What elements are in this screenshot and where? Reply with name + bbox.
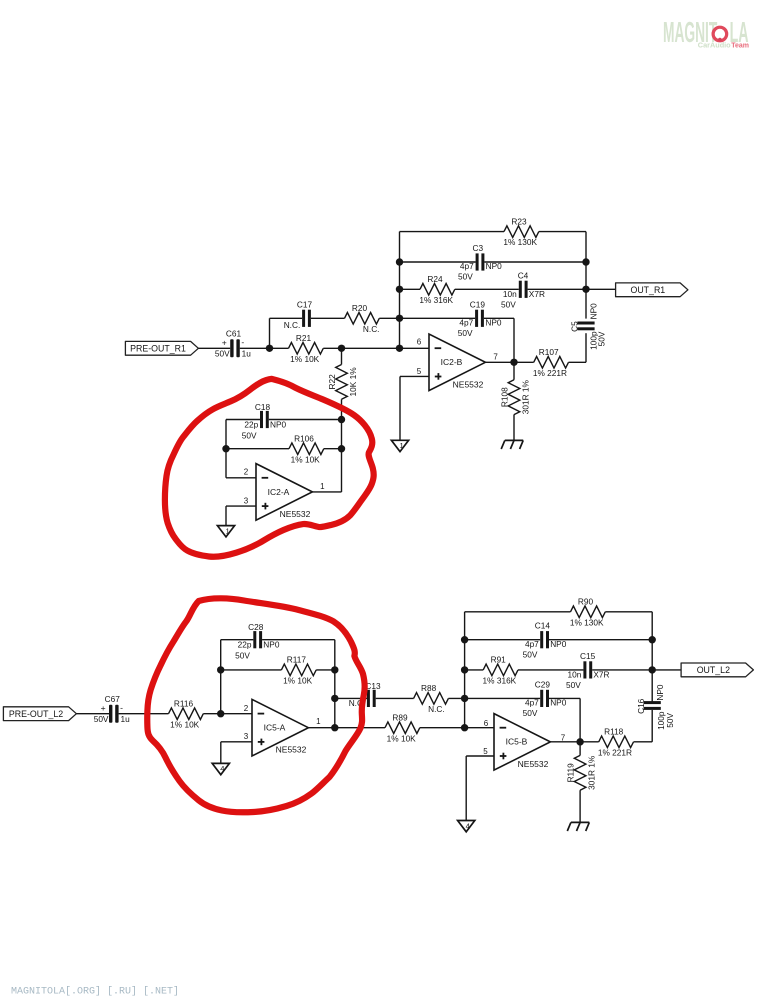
svg-text:50V: 50V	[597, 331, 607, 346]
op-amp IC2-A NE5532	[256, 464, 312, 521]
logo MAGNITOLA text	[663, 15, 717, 48]
svg-text:+: +	[101, 703, 106, 713]
wire drop to output node	[513, 318, 515, 362]
line A with R23	[400, 231, 505, 233]
svg-text:NE5532: NE5532	[280, 509, 311, 519]
wire tag to C67	[76, 713, 109, 715]
junction bus/R117	[217, 666, 224, 673]
line with R91 and C15	[465, 669, 484, 671]
left feedback bus of IC5-B	[464, 612, 466, 728]
svg-text:4: 4	[466, 821, 470, 830]
junction left/R106	[222, 445, 229, 452]
junction right bus/C14	[649, 636, 656, 643]
junction right bus/C3	[582, 258, 589, 265]
svg-text:50V: 50V	[215, 349, 230, 359]
svg-text:6: 6	[417, 337, 422, 346]
capacitor C5 100p NP0 50V	[577, 322, 594, 325]
resistor R106 1% 10K	[289, 443, 324, 455]
svg-text:R24: R24	[427, 274, 443, 284]
svg-text:22p: 22p	[238, 640, 252, 650]
resistor R119 301R 1%	[579, 742, 581, 756]
svg-text:R91: R91	[491, 655, 507, 665]
svg-text:R23: R23	[511, 216, 527, 226]
resistor R108 301R 1%	[513, 362, 515, 379]
wire C18 to right	[269, 419, 342, 421]
svg-text:2: 2	[244, 704, 249, 713]
line with C29	[465, 697, 541, 699]
svg-text:N.C.: N.C.	[363, 324, 380, 334]
svg-text:C16: C16	[636, 698, 646, 714]
svg-text:4: 4	[220, 764, 224, 773]
svg-text:X7R: X7R	[529, 289, 545, 299]
junction right/R106	[338, 445, 345, 452]
junction IC5-B output node	[576, 738, 583, 745]
resistor R89 1% 10K	[385, 722, 420, 734]
net tag OUT_R1	[616, 283, 688, 297]
wire R106 right	[324, 448, 342, 450]
capacitor C67 (polarized 1u 50V)	[94, 694, 130, 724]
svg-text:C5: C5	[569, 321, 579, 332]
svg-text:1% 10K: 1% 10K	[283, 676, 313, 686]
junction bus/C14	[461, 636, 468, 643]
right bus vertical	[585, 232, 587, 319]
junction R22 bottom	[338, 416, 345, 423]
svg-text:OUT_L2: OUT_L2	[697, 665, 730, 675]
junction bus/R88-C29 line	[461, 695, 468, 702]
svg-text:R106: R106	[294, 434, 314, 444]
svg-text:R116: R116	[174, 699, 194, 709]
svg-text:5: 5	[483, 747, 488, 756]
junction bus/R117 right	[331, 666, 338, 673]
svg-text:10K 1%: 10K 1%	[348, 367, 358, 397]
wire R24 to C4	[455, 288, 519, 290]
wire R118 to C16 bus	[634, 741, 653, 743]
svg-text:N.C.: N.C.	[284, 320, 301, 330]
junction bus/C13 line	[331, 695, 338, 702]
svg-text:3: 3	[244, 497, 249, 506]
svg-text:1: 1	[320, 482, 325, 491]
output wire of IC2-A pin 1	[312, 491, 341, 493]
junction bus/R91	[461, 666, 468, 673]
svg-text:1% 130K: 1% 130K	[503, 237, 537, 247]
svg-text:R117: R117	[287, 655, 307, 665]
svg-text:1% 316K: 1% 316K	[419, 295, 453, 305]
capacitor C16 100p NP0 50V	[644, 701, 661, 704]
junction R116/bus	[217, 710, 224, 717]
red hand-drawn loop around IC5-A	[147, 598, 364, 812]
wire tag to C61	[198, 347, 230, 349]
output wire of IC5-A pin 1	[308, 727, 334, 729]
svg-text:R20: R20	[352, 303, 368, 313]
svg-text:R88: R88	[421, 683, 437, 693]
svg-text:C67: C67	[105, 694, 121, 704]
svg-text:C18: C18	[255, 402, 271, 412]
svg-text:C3: C3	[472, 243, 483, 253]
junction right bus/OUT_L2	[649, 666, 656, 673]
svg-text:NP0: NP0	[655, 684, 665, 701]
capacitor C14 4p7 NP0 50V	[540, 631, 543, 648]
input tag PRE-OUT_R1	[125, 341, 198, 355]
svg-text:1% 221R: 1% 221R	[598, 747, 632, 757]
wire R21 to IC2-B pin 6	[323, 347, 429, 349]
svg-text:R107: R107	[539, 347, 559, 357]
svg-text:N.C.: N.C.	[428, 704, 445, 714]
capacitor C29 4p7 NP0 50V	[540, 690, 543, 707]
wire C19 right	[484, 317, 514, 319]
svg-text:C29: C29	[535, 679, 551, 689]
svg-text:IC2-A: IC2-A	[268, 487, 290, 497]
wire C61 to R21	[240, 347, 289, 349]
input tag PRE-OUT_L2	[3, 707, 76, 721]
svg-text:10n: 10n	[568, 670, 582, 680]
svg-text:R119: R119	[566, 763, 576, 783]
capacitor C61 (polarized 1u 50V)	[215, 329, 251, 359]
chassis ground (R108)	[501, 440, 523, 449]
resistor R91 1% 316K	[483, 664, 518, 676]
wire R90 to right bus	[605, 611, 652, 613]
line with R89	[335, 727, 385, 729]
svg-text:R21: R21	[296, 333, 312, 343]
op-amp IC5-A NE5532	[252, 699, 308, 756]
wire R88 to bus	[448, 697, 464, 699]
svg-text:NP0: NP0	[485, 318, 502, 328]
svg-text:50V: 50V	[523, 649, 538, 659]
svg-text:4p7: 4p7	[459, 318, 473, 328]
svg-text:NP0: NP0	[486, 261, 503, 271]
svg-text:NP0: NP0	[263, 640, 280, 650]
wire C29 right	[549, 697, 580, 699]
svg-text:+: +	[222, 338, 227, 348]
svg-text:IC5-B: IC5-B	[506, 737, 528, 747]
wire R107 to C5 bus	[569, 361, 587, 363]
wire C3 to right bus	[484, 261, 586, 263]
resistor R88 (N.C.)	[414, 693, 449, 705]
capacitor C4 10n X7R 50V	[519, 281, 522, 298]
wire input node up to C17 line	[269, 318, 271, 348]
ground symbol (IC5-A pin3)	[212, 763, 229, 774]
svg-text:R90: R90	[578, 597, 594, 607]
wire R91 to C15	[518, 669, 583, 671]
svg-text:1: 1	[316, 717, 321, 726]
output wire of IC2-B	[485, 361, 514, 363]
svg-text:2: 2	[244, 468, 249, 477]
chassis ground (R119)	[567, 822, 589, 831]
junction R22 top	[338, 345, 345, 352]
svg-text:3: 3	[244, 732, 249, 741]
resistor R23 1% 130K	[504, 226, 539, 238]
capacitor C28 22p NP0 50V	[253, 631, 256, 648]
wire R89 to IC5-B pin6	[420, 727, 494, 729]
junction bus/pin6 line	[396, 345, 403, 352]
svg-text:C28: C28	[248, 622, 264, 632]
resistor R20 (N.C.)	[345, 313, 380, 325]
wire R117 right	[316, 669, 335, 671]
svg-text:50V: 50V	[566, 680, 581, 690]
svg-text:NE5532: NE5532	[276, 745, 307, 755]
pin 3 stub of IC2-A	[226, 505, 256, 507]
svg-text:50V: 50V	[242, 430, 257, 440]
svg-text:1u: 1u	[120, 714, 130, 724]
svg-text:MAGNITOLA[.ORG] [.RU] [.NET]: MAGNITOLA[.ORG] [.RU] [.NET]	[11, 986, 179, 998]
line with R117	[221, 669, 282, 671]
svg-text:NP0: NP0	[270, 420, 287, 430]
left vertical of IC2-A loop	[225, 420, 227, 478]
junction bus/R24 line	[396, 286, 403, 293]
wire C14 to right bus	[549, 639, 652, 641]
wire drop to IC5-B output	[579, 698, 581, 741]
svg-text:-: -	[120, 702, 123, 712]
svg-text:6: 6	[484, 719, 489, 728]
right bus of bottom section	[651, 612, 653, 704]
svg-text:PRE-OUT_L2: PRE-OUT_L2	[9, 709, 63, 719]
pin 3 stub of IC5-A	[221, 741, 252, 743]
svg-text:IC2-B: IC2-B	[441, 357, 463, 367]
net tag OUT_L2	[681, 663, 753, 677]
line with C14	[465, 639, 541, 641]
svg-text:R89: R89	[392, 713, 408, 723]
wire C17 to R20	[311, 317, 345, 319]
svg-text:CarAudio: CarAudio	[698, 41, 731, 50]
capacitor C15 10n X7R 50V	[583, 661, 586, 678]
wire to OUT_R1 tag	[586, 288, 616, 290]
svg-text:IC5-A: IC5-A	[264, 723, 286, 733]
svg-text:4p7: 4p7	[525, 698, 539, 708]
resistor R90 1% 130K	[571, 606, 606, 618]
output wire of IC5-B	[550, 741, 580, 743]
resistor R21 1% 10K	[289, 343, 324, 355]
svg-text:1% 10K: 1% 10K	[387, 733, 417, 743]
line D continuation: C19 to output drop	[400, 317, 476, 319]
capacitor C3 4p7 NP0 50V	[476, 253, 479, 270]
wire C67 to R116	[119, 713, 169, 715]
svg-text:C13: C13	[365, 681, 381, 691]
wire C16 to R118	[651, 710, 653, 742]
line G with R106	[226, 448, 289, 450]
wire R23 to right bus	[539, 231, 586, 233]
resistor R116 1% 10K	[169, 708, 204, 720]
left feedback bus vertical	[399, 232, 401, 349]
junction right bus/OUT node	[582, 286, 589, 293]
svg-text:R22: R22	[327, 374, 337, 390]
svg-text:C19: C19	[470, 299, 486, 309]
line with R90	[465, 611, 571, 613]
wire pin5 to ground	[465, 756, 467, 821]
wire C15 to right bus	[592, 669, 652, 671]
wire to C17	[270, 317, 303, 319]
svg-text:4p7: 4p7	[525, 639, 539, 649]
capacitor C17 (N.C.)	[302, 310, 305, 327]
pin 5 stub of IC2-B	[400, 375, 429, 377]
IC5-A feedback bus vertical	[334, 640, 336, 728]
wire pin3 to ground	[225, 506, 227, 525]
junction bus/C17 line	[396, 315, 403, 322]
line C with R24 and C4	[400, 288, 421, 290]
logo red dot inside ring	[718, 38, 722, 42]
svg-text:50V: 50V	[235, 651, 250, 661]
pin 2 stub of IC2-A	[226, 477, 256, 479]
junction bus/C3 line	[396, 258, 403, 265]
svg-text:X7R: X7R	[593, 670, 609, 680]
capacitor C13 (N.C.)	[367, 690, 370, 707]
wire C28 to right	[262, 639, 335, 641]
wire to R118	[580, 741, 599, 743]
capacitor C18 22p NP0 50V	[260, 411, 263, 428]
wire C4 to right bus	[528, 288, 586, 290]
resistor R22 10K 1%	[341, 348, 343, 364]
svg-text:1% 10K: 1% 10K	[291, 454, 321, 464]
svg-text:C17: C17	[297, 299, 313, 309]
svg-text:Team: Team	[731, 43, 749, 50]
right vertical of IC2-A loop	[341, 420, 343, 492]
junction input node	[266, 345, 273, 352]
svg-text:C4: C4	[518, 270, 529, 280]
svg-text:4p7: 4p7	[460, 261, 474, 271]
line F with C18	[226, 419, 260, 421]
wire C5 to R107	[585, 333, 587, 362]
svg-text:22p: 22p	[244, 420, 258, 430]
wire R20 to bus	[379, 317, 399, 319]
svg-text:50V: 50V	[458, 328, 473, 338]
svg-text:301R 1%: 301R 1%	[521, 379, 531, 414]
svg-text:NE5532: NE5532	[453, 379, 484, 389]
junction bus/pin6 line	[461, 724, 468, 731]
svg-text:-: -	[241, 337, 244, 347]
line with C13 and R88	[335, 697, 367, 699]
wire R116 to IC5-A pin2	[203, 713, 252, 715]
red hand-drawn loop around IC2-A	[165, 379, 374, 557]
svg-text:NE5532: NE5532	[518, 759, 549, 769]
svg-text:1u: 1u	[242, 349, 252, 359]
svg-text:7: 7	[561, 734, 566, 743]
op-amp IC5-B NE5532	[494, 714, 550, 771]
svg-text:1% 10K: 1% 10K	[170, 719, 200, 729]
svg-text:R118: R118	[604, 727, 624, 737]
line B with C3	[400, 261, 476, 263]
resistor R107 1% 221R	[534, 357, 569, 369]
wire pin3 to ground	[220, 742, 222, 764]
capacitor C19 4p7 NP0 50V	[475, 310, 478, 327]
wire C13 to R88	[376, 697, 414, 699]
svg-text:R108: R108	[499, 387, 509, 407]
ground symbol (IC2-B pin5)	[391, 440, 408, 451]
svg-text:C15: C15	[580, 651, 596, 661]
wire pin5 to ground	[399, 376, 401, 440]
svg-text:C61: C61	[226, 329, 242, 339]
svg-text:1% 316K: 1% 316K	[483, 676, 517, 686]
pin 5 stub of IC5-B	[466, 755, 494, 757]
resistor R117 1% 10K	[281, 664, 316, 676]
svg-text:5: 5	[417, 367, 422, 376]
junction output node	[510, 359, 517, 366]
svg-text:PRE-OUT_R1: PRE-OUT_R1	[130, 343, 186, 353]
svg-text:1% 10K: 1% 10K	[290, 354, 320, 364]
svg-text:1% 221R: 1% 221R	[533, 368, 567, 378]
svg-text:301R 1%: 301R 1%	[587, 755, 597, 790]
svg-text:50V: 50V	[458, 272, 473, 282]
logo red ring (O)	[713, 27, 727, 41]
junction IC5-A output	[331, 724, 338, 731]
svg-text:7: 7	[493, 353, 498, 362]
line with C28	[221, 639, 254, 641]
resistor R118 1% 221R	[599, 736, 634, 748]
svg-text:50V: 50V	[94, 714, 109, 724]
op-amp IC2-B NE5532	[429, 334, 485, 391]
wire to OUT_L2 tag	[652, 669, 681, 671]
svg-text:OUT_R1: OUT_R1	[630, 285, 665, 295]
svg-text:C14: C14	[535, 621, 551, 631]
svg-text:50V: 50V	[665, 712, 675, 727]
ground symbol (IC5-B pin5)	[458, 821, 475, 832]
svg-text:1% 130K: 1% 130K	[570, 617, 604, 627]
left bus of IC5-A loop	[220, 640, 222, 714]
svg-text:50V: 50V	[523, 708, 538, 718]
svg-text:1: 1	[399, 441, 403, 450]
resistor R24 1% 316K	[420, 284, 455, 296]
svg-text:NP0: NP0	[589, 303, 599, 320]
svg-text:50V: 50V	[501, 300, 516, 310]
ground symbol (IC2-A pin3)	[217, 526, 234, 537]
wire to R107	[514, 361, 534, 363]
svg-text:10n: 10n	[503, 289, 517, 299]
svg-text:1: 1	[225, 526, 229, 535]
